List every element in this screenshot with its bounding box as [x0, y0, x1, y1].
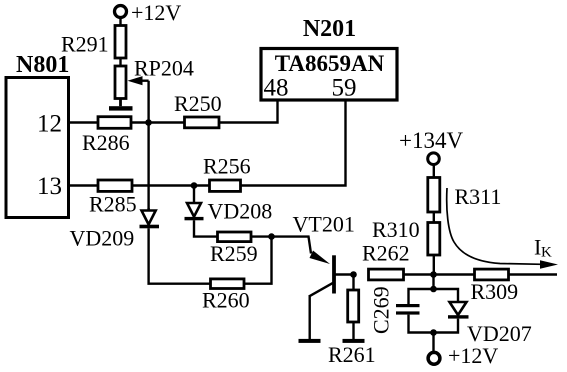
resistor R256	[203, 154, 251, 192]
svg-text:VD208: VD208	[208, 199, 273, 224]
svg-text:TA8659AN: TA8659AN	[275, 51, 385, 76]
ground bar (R261)	[343, 339, 365, 343]
svg-text:C269: C269	[369, 286, 394, 334]
wire R311 to R310	[433, 212, 435, 223]
node: junction dot base node	[268, 233, 275, 240]
svg-text:59: 59	[332, 75, 357, 102]
wire R309 to output	[509, 273, 558, 275]
svg-text:R311: R311	[455, 184, 502, 209]
node: junction dot main line	[430, 271, 437, 278]
IC N801 box	[6, 52, 69, 218]
svg-text:R259: R259	[210, 241, 258, 266]
node: junction dot VD208 top	[191, 182, 198, 189]
capacitor C269	[369, 286, 420, 334]
svg-text:VT201: VT201	[293, 212, 355, 237]
ground bar (emitter)	[299, 339, 321, 343]
wire main line to R309	[434, 273, 475, 275]
svg-text:N801: N801	[16, 52, 69, 78]
svg-text:R286: R286	[82, 130, 130, 155]
+12V supply terminal (top)	[115, 0, 182, 25]
resistor R311	[428, 178, 502, 213]
wire terminal to R311	[433, 166, 435, 178]
wire pin 12 to R286	[69, 121, 99, 123]
resistor R261	[328, 275, 376, 368]
svg-text:K: K	[541, 245, 552, 261]
+134V supply terminal	[399, 128, 463, 165]
wire RP204 wiper down to VD209	[147, 81, 149, 211]
wire R259 to junction	[251, 235, 272, 237]
wire N201 pin 59 down to R256 line	[241, 100, 346, 186]
+12V supply terminal (bottom)	[428, 343, 498, 368]
svg-text:+134V: +134V	[399, 128, 463, 153]
node: junction dot parallel top	[430, 286, 437, 293]
IC N201 box	[261, 16, 397, 100]
resistor R291	[61, 26, 126, 59]
svg-text:R256: R256	[203, 154, 251, 179]
node: junction dot collector/R261	[350, 271, 357, 278]
wire R262 to node	[404, 273, 434, 275]
wire R250 to N201 pin 48	[219, 100, 278, 123]
wire R291 to RP204	[119, 58, 121, 66]
diode VD209	[70, 208, 160, 251]
RP204 bottom stem and end bar	[109, 99, 133, 111]
current curve IK	[447, 188, 558, 269]
wire pin13 line box to R285	[69, 184, 99, 186]
wire emitter down	[309, 295, 311, 339]
svg-text:R310: R310	[372, 217, 420, 242]
svg-text:VD209: VD209	[70, 226, 135, 251]
svg-text:12: 12	[37, 111, 62, 138]
svg-text:R260: R260	[202, 288, 250, 313]
wire parallel bottom rail	[409, 315, 459, 333]
wire VD208 to R259	[194, 220, 218, 236]
wire R260 right up to base node	[244, 237, 272, 284]
resistor R286	[82, 117, 131, 155]
node: junction dot parallel bottom	[430, 329, 437, 336]
svg-text:RP204: RP204	[134, 56, 194, 81]
wire down to +12V terminal	[432, 333, 434, 353]
diode VD208	[185, 186, 273, 224]
svg-text:R309: R309	[471, 279, 519, 304]
svg-text:+12V: +12V	[131, 0, 181, 25]
svg-text:R250: R250	[174, 91, 222, 116]
transistor VT201	[272, 212, 355, 297]
wire R285 to R256	[132, 184, 210, 186]
wire VD209 to R260	[149, 228, 211, 283]
wire terminal to R291	[119, 19, 121, 26]
resistor R250	[174, 91, 222, 128]
wire node down to parallel group	[432, 275, 434, 290]
svg-text:13: 13	[37, 173, 62, 200]
diode VD207	[448, 302, 532, 346]
resistor R259	[210, 232, 258, 266]
resistor R285	[89, 180, 137, 217]
resistor R260	[202, 279, 250, 313]
svg-text:R261: R261	[328, 342, 376, 367]
svg-text:N201: N201	[303, 16, 356, 42]
node: junction dot wiper/pin12	[145, 119, 152, 126]
resistor R310	[372, 217, 440, 255]
wire R310 to main line	[433, 255, 435, 275]
svg-text:48: 48	[264, 75, 289, 102]
wire parallel top rail	[409, 289, 459, 305]
svg-text:R285: R285	[89, 192, 137, 217]
svg-text:R262: R262	[362, 241, 410, 266]
resistor R309	[471, 269, 519, 304]
svg-text:+12V: +12V	[448, 343, 498, 368]
resistor R262	[362, 241, 410, 280]
potentiometer RP204	[115, 56, 194, 99]
wire R286 to R250	[131, 121, 185, 123]
